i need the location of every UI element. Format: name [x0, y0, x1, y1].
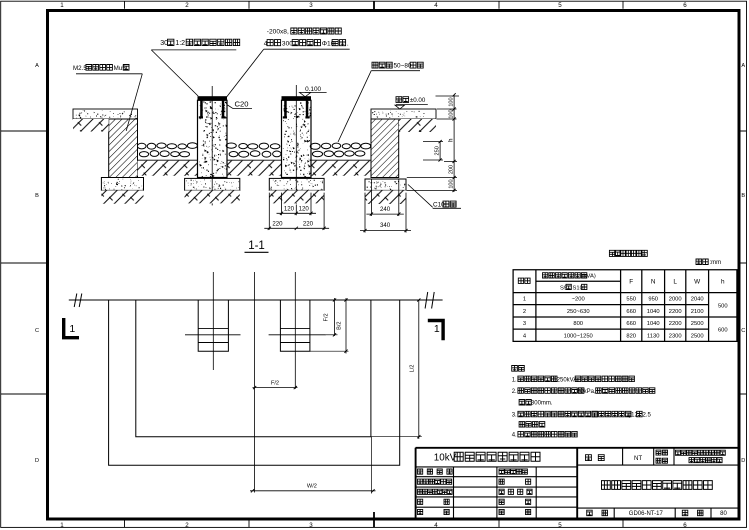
column 2 footing	[269, 178, 324, 190]
extension stubs	[407, 96, 459, 190]
title block grid	[416, 448, 739, 520]
W/2 dim	[250, 490, 376, 492]
inner 250 dim	[439, 142, 441, 160]
left brick wall hatched	[109, 119, 138, 178]
svg-text:500: 500	[718, 303, 728, 309]
svg-text:(kVA): (kVA)	[582, 274, 596, 280]
svg-text:.: .	[347, 40, 349, 47]
soil under band2	[227, 161, 282, 176]
svg-text:M2.5: M2.5	[73, 65, 87, 72]
svg-text:2040: 2040	[691, 297, 704, 303]
right margin division lines	[739, 131, 746, 394]
svg-text:C20: C20	[235, 99, 249, 108]
ground hatch left of wall	[73, 119, 109, 132]
svg-text:2200: 2200	[669, 321, 682, 327]
svg-text:h: h	[721, 278, 725, 285]
svg-text:L: L	[673, 278, 677, 285]
svg-text:50~80: 50~80	[394, 63, 412, 70]
svg-text:100: 100	[448, 97, 454, 106]
svg-text:~200: ~200	[572, 297, 585, 303]
svg-text:F/2: F/2	[271, 380, 279, 386]
left column labels	[418, 469, 453, 474]
svg-text:F/2: F/2	[324, 313, 330, 321]
plan middle rectangle	[136, 300, 371, 437]
cobble fill band 1	[137, 143, 146, 149]
svg-text:A: A	[741, 63, 745, 69]
svg-text:340: 340	[380, 222, 391, 229]
svg-text:1-1: 1-1	[248, 240, 265, 252]
svg-text:1130: 1130	[647, 333, 659, 339]
A1 horizontal centreline	[185, 334, 241, 336]
svg-text:100: 100	[448, 179, 454, 188]
left margin division lines	[1, 131, 48, 394]
ground line band1	[138, 159, 198, 161]
svg-text:6: 6	[683, 2, 687, 9]
company name	[675, 450, 725, 455]
svg-text:1:2: 1:2	[175, 40, 185, 47]
svg-text:GD06-NT-17: GD06-NT-17	[629, 511, 664, 517]
svg-text:200: 200	[448, 165, 454, 174]
right slab concrete	[371, 109, 436, 119]
svg-text:220: 220	[272, 221, 283, 228]
level triangle col2	[300, 92, 311, 96]
svg-text:4.: 4.	[512, 433, 517, 439]
ground line band3	[311, 159, 371, 161]
soil under left footing	[101, 190, 143, 203]
soil under band1	[138, 161, 198, 176]
svg-text:L/2: L/2	[410, 365, 416, 373]
transformer mid axis	[254, 272, 256, 493]
svg-text:2200: 2200	[669, 309, 682, 315]
leader to column1 cap	[151, 50, 198, 96]
svg-text:1: 1	[60, 2, 64, 9]
svg-text:300mm.: 300mm.	[531, 401, 553, 407]
plan top edge line	[69, 299, 443, 301]
soil under footing 2	[269, 190, 324, 203]
svg-text:3: 3	[523, 321, 526, 327]
leader to wall	[126, 74, 142, 131]
label ground level +-0.00	[396, 97, 409, 103]
svg-text:D: D	[741, 458, 745, 464]
level triangle right wall	[395, 105, 405, 109]
leader to cobble band3	[338, 71, 371, 142]
concrete column 1 with steel cap plate and anchor bars	[198, 100, 228, 177]
col2 footing dims 220/220	[269, 193, 324, 230]
column 1 centerline	[211, 86, 213, 205]
column 2 centerline	[295, 85, 297, 204]
svg-text:1.: 1.	[512, 377, 517, 383]
svg-text:B/2: B/2	[337, 321, 343, 329]
table title	[609, 250, 647, 256]
svg-text:550: 550	[626, 297, 636, 303]
L/2 dim	[418, 300, 420, 439]
right brick wall hatched	[371, 119, 399, 178]
svg-text:2: 2	[185, 2, 189, 9]
svg-text:W/2: W/2	[307, 484, 317, 490]
svg-text:-200x8,: -200x8,	[267, 29, 289, 36]
A1 vertical centreline	[212, 272, 214, 370]
section marker 1 left	[62, 318, 79, 339]
dimensions table	[513, 270, 737, 342]
svg-text:5: 5	[558, 2, 562, 9]
svg-text:2.5: 2.5	[643, 412, 652, 418]
svg-text:250~630: 250~630	[567, 309, 590, 315]
svg-text:1: 1	[523, 297, 526, 303]
svg-text:600: 600	[718, 328, 728, 334]
cobble fill band 2	[226, 143, 236, 148]
drawing big title	[602, 481, 713, 490]
svg-text:240: 240	[380, 206, 391, 213]
soil under band3	[311, 161, 371, 176]
svg-text:1: 1	[434, 323, 440, 335]
svg-text:10kV: 10kV	[434, 453, 457, 464]
svg-text:2300: 2300	[669, 333, 682, 339]
svg-text:3.: 3.	[512, 412, 517, 418]
svg-text:4: 4	[434, 522, 438, 529]
svg-text:220: 220	[303, 221, 314, 228]
unit label mm	[696, 259, 708, 265]
svg-text:80kPa,: 80kPa,	[577, 389, 596, 395]
svg-text:3: 3	[309, 2, 313, 9]
svg-text:660: 660	[626, 309, 636, 315]
svg-text:N: N	[651, 278, 656, 285]
left slab concrete	[73, 109, 138, 119]
B/2 vertical dim	[345, 298, 347, 354]
svg-text:W: W	[694, 278, 701, 285]
svg-text:4: 4	[434, 2, 438, 9]
svg-text:80: 80	[720, 511, 727, 517]
svg-text:1: 1	[60, 522, 64, 529]
right footing dim 340	[360, 230, 411, 232]
soil under right footing	[365, 190, 406, 204]
section marker 1 right	[428, 319, 445, 340]
label cobble fill 50~80	[372, 62, 392, 68]
svg-text:300: 300	[282, 40, 293, 47]
right wall footing	[365, 179, 406, 190]
svg-text:D: D	[35, 458, 39, 464]
svg-text:6: 6	[683, 522, 687, 529]
zhubian danwei cell	[656, 450, 668, 455]
break marks left	[74, 294, 82, 308]
svg-text:2: 2	[523, 309, 526, 315]
cobble fill band 3	[310, 143, 320, 149]
svg-text:1040: 1040	[647, 309, 660, 315]
zone ticks top	[125, 1, 624, 9]
zone ticks bottom	[125, 520, 624, 527]
svg-text:2: 2	[185, 522, 189, 529]
plan outer rectangle	[109, 300, 400, 465]
svg-text:1040: 1040	[647, 321, 660, 327]
svg-text:C: C	[741, 328, 745, 334]
svg-text:2500: 2500	[691, 333, 704, 339]
right wall width dim 240	[365, 179, 406, 233]
svg-text:950: 950	[648, 297, 658, 303]
svg-text:800: 800	[573, 321, 583, 327]
svg-text:A: A	[35, 63, 39, 69]
svg-text:5: 5	[558, 522, 562, 529]
svg-text::mm: :mm	[709, 260, 721, 266]
svg-text:250: 250	[434, 146, 440, 155]
svg-text:2.: 2.	[512, 389, 517, 395]
A2 horizontal centreline	[269, 334, 326, 336]
F/2 horizontal dim	[253, 387, 298, 389]
svg-text:3: 3	[309, 522, 313, 529]
svg-text:±0.00: ±0.00	[410, 97, 426, 104]
concrete column 2 with steel cap plate and anchor bars	[282, 100, 312, 177]
svg-text:1: 1	[69, 323, 75, 335]
ground line band2	[227, 159, 282, 161]
anchor pocket detail A1	[198, 300, 228, 351]
svg-text:2100: 2100	[691, 309, 704, 315]
break marks right	[425, 292, 434, 309]
column 1 footing	[185, 178, 240, 190]
svg-text:1000~1250: 1000~1250	[564, 333, 593, 339]
svg-text:2000: 2000	[669, 297, 682, 303]
svg-text:2500: 2500	[691, 321, 704, 327]
svg-text:B: B	[35, 193, 39, 199]
svg-text:660: 660	[626, 321, 636, 327]
F/2 vertical dim	[334, 298, 336, 336]
A2 vertical centreline	[294, 272, 296, 389]
svg-text:30: 30	[160, 40, 168, 47]
svg-text:120: 120	[299, 206, 310, 213]
right elevation dim line	[453, 95, 455, 192]
notes heading	[512, 366, 525, 372]
ground hatch right of wall	[399, 119, 436, 132]
svg-text:B: B	[741, 193, 745, 199]
bottom row: drawing number	[587, 510, 593, 516]
soil under footing 1	[185, 190, 240, 203]
svg-text:820: 820	[626, 333, 636, 339]
svg-text:F: F	[629, 278, 633, 285]
svg-text:C: C	[35, 328, 39, 334]
anchor pocket detail A2	[280, 300, 310, 351]
svg-text:120: 120	[284, 206, 295, 213]
left wall footing	[101, 178, 143, 191]
svg-text:NT: NT	[634, 455, 642, 462]
table header texts	[518, 278, 530, 283]
svg-text:h: h	[448, 139, 454, 142]
leader to column1 cap right	[227, 49, 264, 97]
leader C10 to footing	[408, 185, 433, 208]
svg-text:100: 100	[448, 109, 454, 118]
fang an cell	[586, 455, 592, 461]
svg-text:1250kVA: 1250kVA	[553, 377, 577, 383]
col2 width dims 120/120	[282, 193, 312, 216]
